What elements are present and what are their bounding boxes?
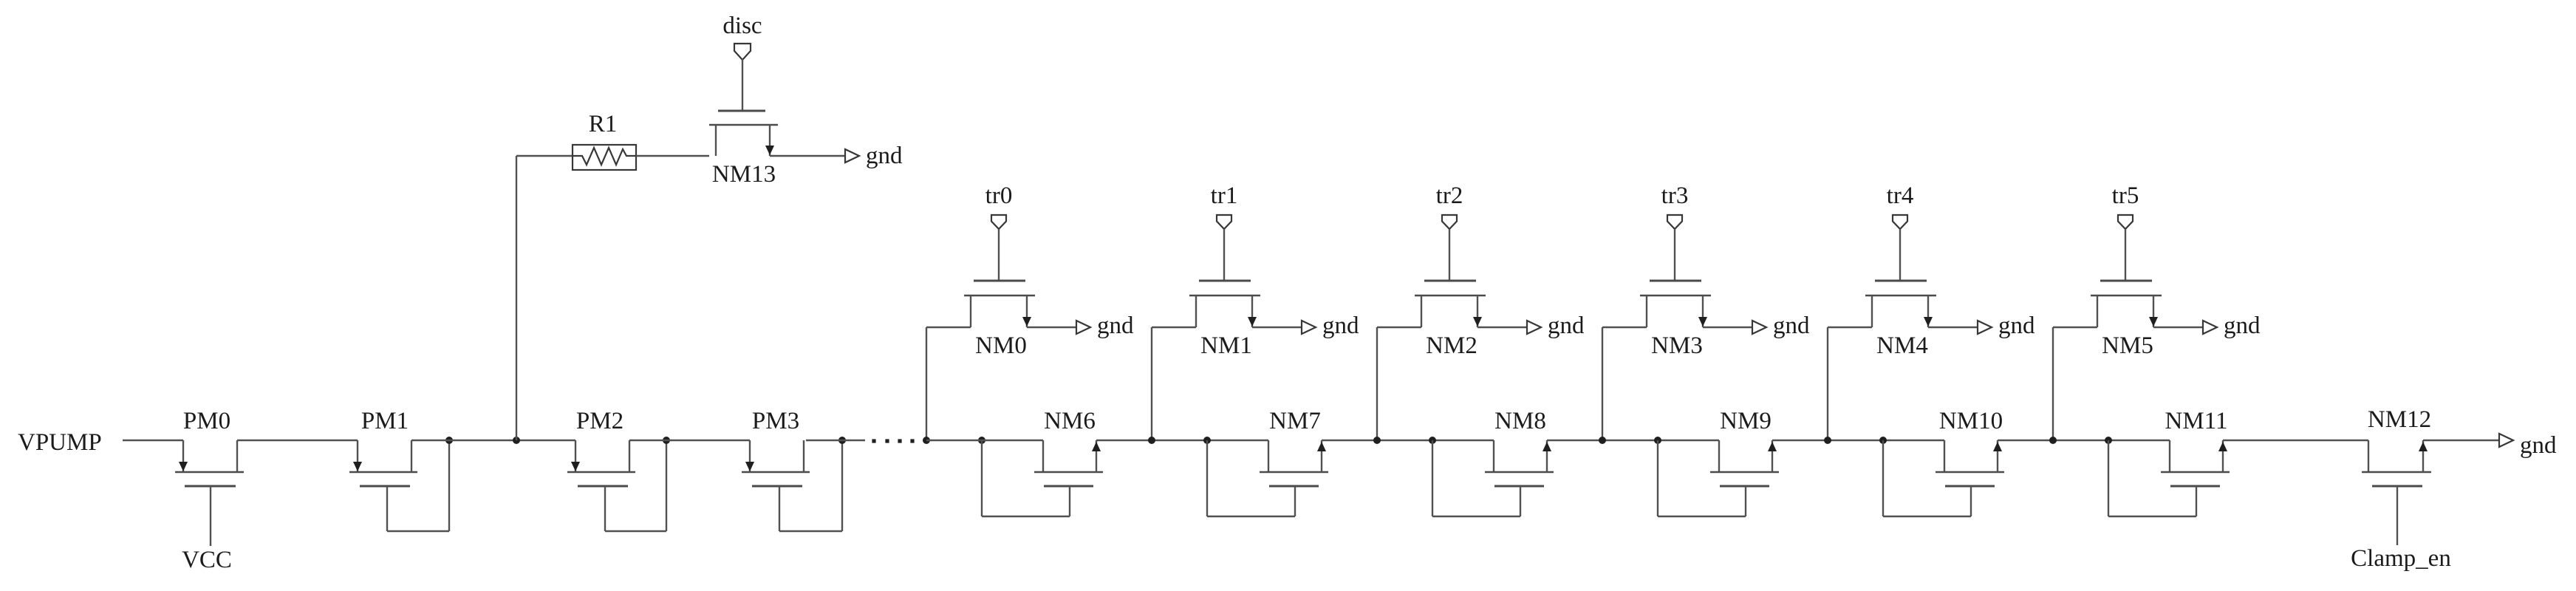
- node junction gate NM8: [1429, 437, 1436, 444]
- wire: [1547, 440, 1719, 441]
- wire: [926, 327, 971, 328]
- wire: [926, 440, 1043, 441]
- node disc: [722, 13, 762, 60]
- node junction: [838, 437, 846, 444]
- wire drop NM2: [1376, 327, 1378, 440]
- transistor NM10: [1936, 408, 2004, 486]
- svg-text:tr2: tr2: [1436, 182, 1463, 209]
- wire PM2 gate loop: [605, 440, 666, 531]
- node junction gate NM6: [978, 437, 985, 444]
- svg-text:PM1: PM1: [361, 408, 409, 434]
- wire: [806, 440, 865, 441]
- wire: [516, 155, 573, 157]
- svg-text:gnd: gnd: [1548, 312, 1585, 339]
- svg-text:PM2: PM2: [576, 408, 623, 434]
- wire: [1828, 327, 1872, 328]
- node junction: [1373, 437, 1381, 444]
- svg-text:tr1: tr1: [1211, 182, 1238, 209]
- svg-text:NM3: NM3: [1651, 332, 1703, 359]
- wire NM10 gate loop: [1883, 440, 1971, 516]
- ground: [1978, 312, 2035, 339]
- wire: [1027, 327, 1076, 328]
- node ellipsis dots: [872, 439, 914, 443]
- wire: [1322, 440, 1494, 441]
- svg-text:NM4: NM4: [1876, 332, 1928, 359]
- ground: [1527, 312, 1585, 339]
- wire: [1772, 440, 1944, 441]
- svg-text:gnd: gnd: [2520, 432, 2557, 459]
- svg-text:NM12: NM12: [2368, 406, 2431, 433]
- wire: [2423, 440, 2499, 441]
- node VPUMP: [18, 429, 102, 456]
- node junction: [1148, 437, 1155, 444]
- svg-text:NM13: NM13: [712, 161, 776, 188]
- wire: [629, 440, 750, 441]
- wire NM8 gate loop: [1432, 440, 1520, 516]
- svg-text:VCC: VCC: [182, 547, 232, 573]
- svg-text:NM10: NM10: [1939, 408, 2003, 434]
- wire: [1703, 327, 1752, 328]
- wire tr5 to gate: [2125, 229, 2126, 281]
- wire drop NM1: [1151, 327, 1152, 440]
- svg-text:tr4: tr4: [1887, 182, 1914, 209]
- ground: [1076, 312, 1134, 339]
- svg-text:NM5: NM5: [2102, 332, 2153, 359]
- svg-text:tr0: tr0: [985, 182, 1013, 209]
- wire NM9 gate loop: [1658, 440, 1746, 516]
- transistor NM6: [1034, 408, 1103, 486]
- svg-text:NM11: NM11: [2165, 408, 2228, 434]
- node junction gate NM9: [1654, 437, 1661, 444]
- ground: [1752, 312, 1810, 339]
- wire: [1928, 327, 1978, 328]
- wire drop NM4: [1827, 327, 1828, 440]
- transistor NM0: [964, 281, 1035, 359]
- svg-text:gnd: gnd: [1322, 312, 1359, 339]
- svg-text:gnd: gnd: [1097, 312, 1134, 339]
- wire: [1377, 327, 1421, 328]
- ground: [2203, 312, 2261, 339]
- svg-text:tr5: tr5: [2112, 182, 2139, 209]
- node tr0: [985, 182, 1013, 229]
- node tr4: [1887, 182, 1914, 229]
- node junction gate NM11: [2105, 437, 2112, 444]
- svg-text:tr3: tr3: [1661, 182, 1689, 209]
- wire: [2153, 327, 2203, 328]
- transistor PM2: [567, 408, 635, 486]
- wire: [1998, 440, 2170, 441]
- svg-text:disc: disc: [722, 13, 762, 39]
- node junction: [663, 437, 670, 444]
- transistor PM3: [742, 408, 810, 486]
- svg-text:VPUMP: VPUMP: [18, 429, 102, 456]
- wire: [770, 155, 845, 157]
- node junction R1 tap: [513, 437, 520, 444]
- wire NM6 gate loop: [982, 440, 1070, 516]
- wire tr1 to gate: [1223, 229, 1225, 281]
- wire NM7 gate loop: [1207, 440, 1295, 516]
- wire: [237, 440, 358, 441]
- wire: [1096, 440, 1268, 441]
- transistor NM13: [709, 111, 778, 188]
- ground: [845, 143, 903, 169]
- node tr3: [1661, 182, 1689, 229]
- svg-text:NM2: NM2: [1426, 332, 1477, 359]
- node junction: [1824, 437, 1831, 444]
- svg-text:NM6: NM6: [1044, 408, 1096, 434]
- wire R1 tap vertical: [516, 156, 517, 440]
- transistor NM9: [1710, 408, 1779, 486]
- wire drop NM5: [2052, 327, 2054, 440]
- node junction: [1599, 437, 1606, 444]
- node junction gate NM10: [1879, 437, 1887, 444]
- wire: [636, 155, 709, 157]
- wire: [123, 440, 183, 441]
- wire: [1602, 327, 1647, 328]
- wire drop NM3: [1602, 327, 1603, 440]
- transistor PM0: [175, 408, 244, 546]
- svg-text:gnd: gnd: [2224, 312, 2261, 339]
- svg-text:PM3: PM3: [752, 408, 799, 434]
- node tr5: [2112, 182, 2139, 229]
- wire tr0 to gate: [998, 229, 1000, 281]
- resistor R1: [573, 111, 636, 170]
- wire tr3 to gate: [1674, 229, 1675, 281]
- svg-text:R1: R1: [589, 111, 618, 137]
- wire: [1477, 327, 1527, 328]
- transistor NM3: [1640, 281, 1711, 359]
- wire PM3 gate loop: [779, 440, 842, 531]
- svg-text:gnd: gnd: [866, 143, 903, 169]
- transistor NM12: [2362, 406, 2431, 545]
- transistor NM8: [1485, 408, 1554, 486]
- wire drop NM0: [926, 327, 927, 440]
- node VCC: [182, 547, 232, 573]
- ground: [1302, 312, 1359, 339]
- wire tr2 to gate: [1449, 229, 1450, 281]
- node junction: [2049, 437, 2057, 444]
- wire disc to gate: [742, 59, 743, 111]
- transistor NM4: [1865, 281, 1936, 359]
- node junction gate NM7: [1203, 437, 1211, 444]
- transistor NM5: [2091, 281, 2162, 359]
- transistor NM7: [1260, 408, 1328, 486]
- node junction: [445, 437, 453, 444]
- svg-text:NM7: NM7: [1269, 408, 1321, 434]
- svg-text:PM0: PM0: [183, 408, 230, 434]
- transistor PM1: [349, 408, 417, 486]
- node tr1: [1211, 182, 1238, 229]
- wire tr4 to gate: [1899, 229, 1901, 281]
- wire PM1 gate loop: [387, 440, 449, 531]
- wire: [411, 440, 575, 441]
- transistor NM2: [1415, 281, 1486, 359]
- node Clamp_en: [2351, 545, 2451, 572]
- node junction: [923, 437, 930, 444]
- transistor NM1: [1189, 281, 1260, 359]
- wire NM11 gate loop: [2108, 440, 2196, 516]
- svg-text:NM9: NM9: [1720, 408, 1772, 434]
- wire: [1252, 327, 1302, 328]
- wire: [2053, 327, 2097, 328]
- svg-text:gnd: gnd: [1998, 312, 2035, 339]
- node tr2: [1436, 182, 1463, 229]
- svg-text:NM0: NM0: [975, 332, 1027, 359]
- wire: [2223, 440, 2368, 441]
- svg-text:NM8: NM8: [1494, 408, 1546, 434]
- svg-text:Clamp_en: Clamp_en: [2351, 545, 2451, 572]
- ground: [2499, 432, 2557, 459]
- svg-text:NM1: NM1: [1200, 332, 1252, 359]
- transistor NM11: [2161, 408, 2230, 486]
- wire: [1152, 327, 1196, 328]
- svg-text:gnd: gnd: [1773, 312, 1810, 339]
